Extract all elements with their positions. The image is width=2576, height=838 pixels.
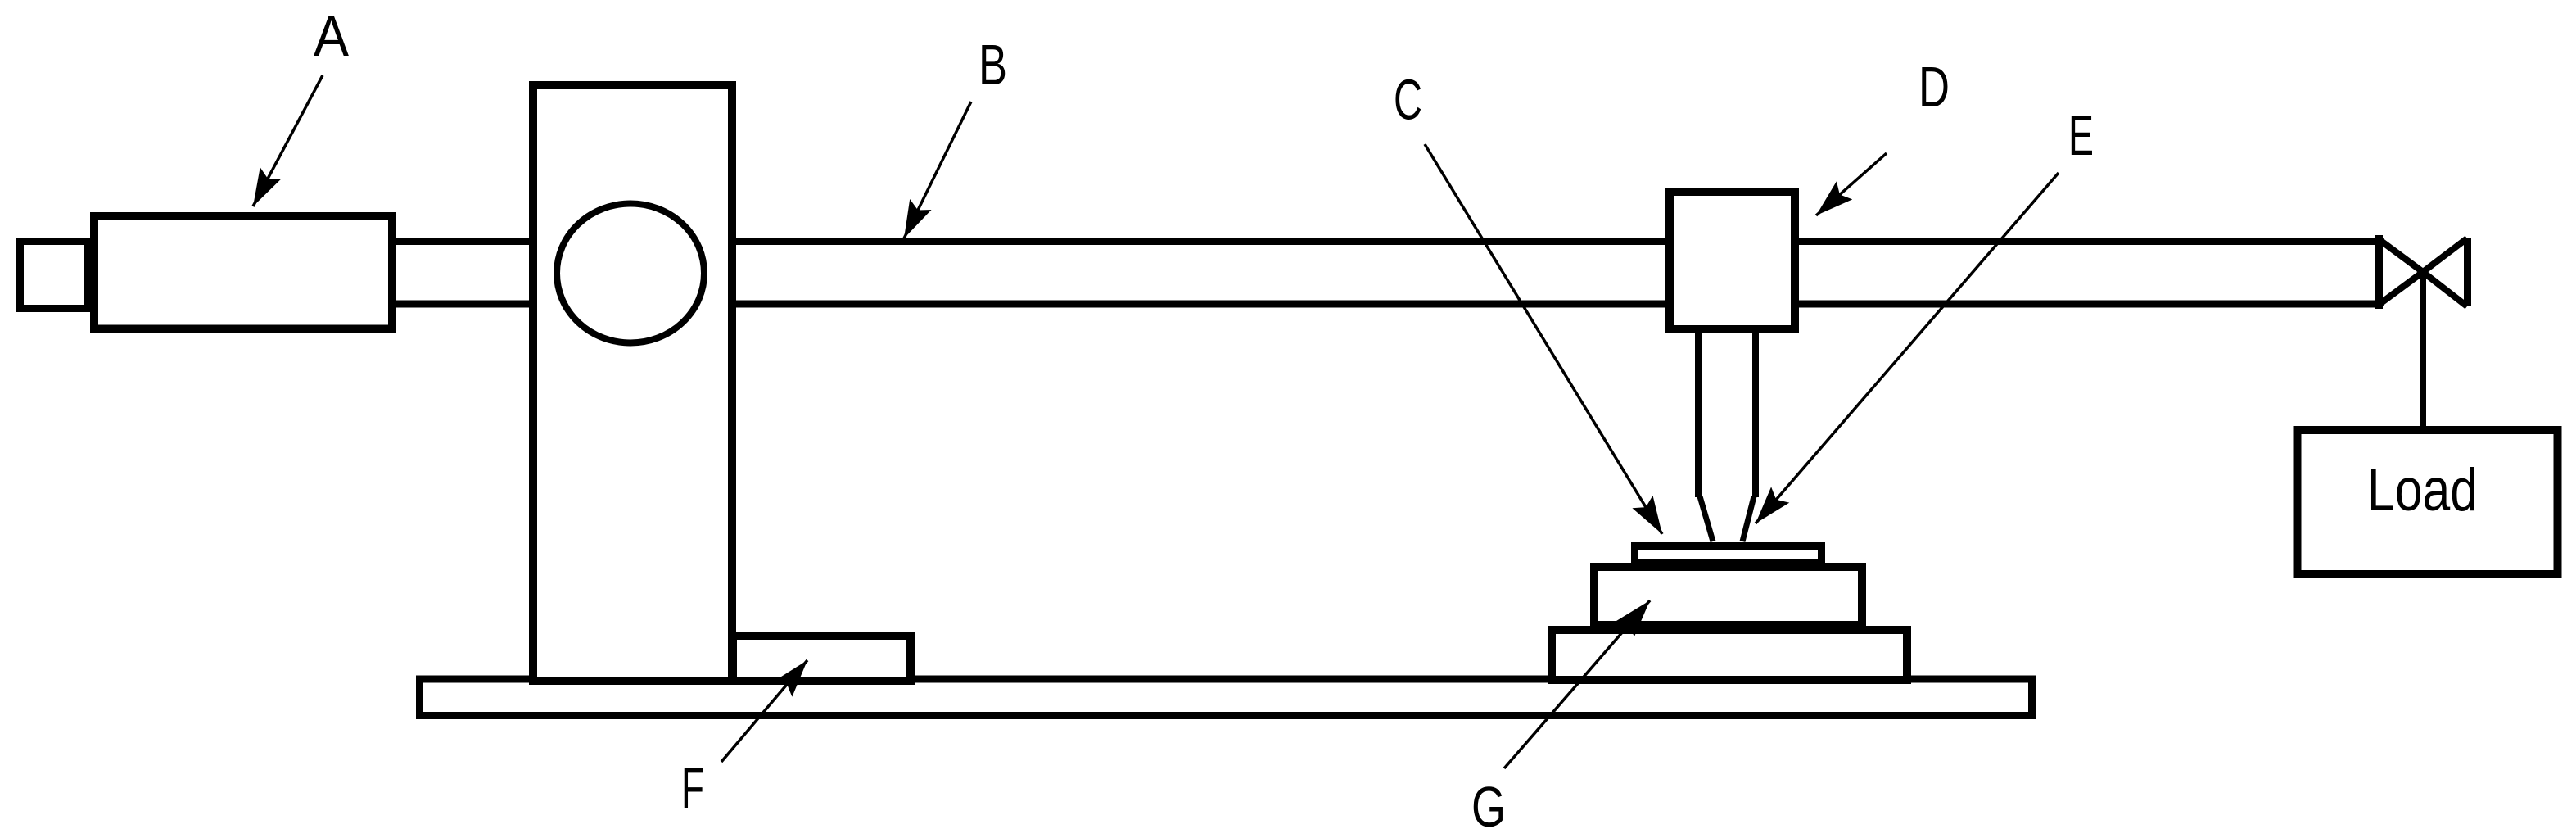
beam end vertical cap: [2375, 235, 2383, 309]
arrow B: [904, 102, 971, 238]
arrow A: [253, 75, 323, 206]
wire: beam bottom line B: [385, 301, 2379, 308]
pivot circle: [557, 204, 704, 343]
wire: beam top line B: [385, 238, 2379, 245]
svg-text:D: D: [1918, 55, 1950, 119]
indenter shaft right rail: [1752, 328, 1759, 497]
knife-edge right triangle: [2464, 238, 2471, 306]
svg-text:E: E: [2068, 103, 2094, 167]
stage upper step G: [1594, 567, 1862, 625]
svg-text:F: F: [681, 756, 704, 820]
column (pivot support): [533, 85, 732, 681]
specimen C (thin plate): [1635, 546, 1822, 564]
svg-text:B: B: [978, 33, 1007, 97]
indenter tip taper left: [1700, 496, 1713, 541]
stage lower step G: [1552, 630, 1907, 680]
arrow F: [721, 660, 807, 762]
arrow E: [1756, 173, 2059, 523]
svg-text:G: G: [1471, 775, 1506, 838]
indenter tip taper right: [1742, 496, 1754, 541]
beam end taper bottom to knife point: [2379, 272, 2423, 305]
block D (indenter holder on beam): [1670, 192, 1795, 329]
svg-text:Load: Load: [2367, 455, 2478, 523]
block F (counterweight on base): [733, 636, 911, 681]
wire: hanger line to load: [2420, 272, 2426, 430]
svg-text:A: A: [314, 4, 349, 68]
base plate: [420, 679, 2032, 716]
arrow D: [1816, 153, 1887, 215]
beam end taper top to knife point: [2379, 239, 2423, 272]
arrow C: [1425, 144, 1662, 534]
stub rectangle at left end of beam: [20, 242, 88, 309]
arrow G: [1504, 600, 1650, 768]
svg-text:C: C: [1394, 68, 1422, 132]
indenter shaft left rail: [1695, 328, 1702, 497]
Load box: [2298, 430, 2558, 574]
block A (motor): [94, 216, 392, 329]
